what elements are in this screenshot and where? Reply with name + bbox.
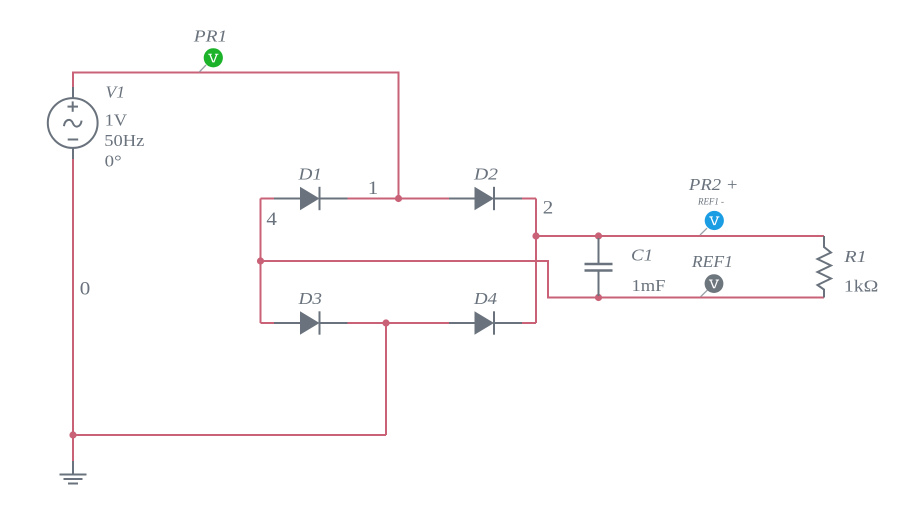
svg-text:PR1: PR1 — [193, 26, 228, 45]
capacitor C1 — [585, 238, 613, 296]
diode D1 — [274, 187, 348, 210]
junction node 1 — [395, 195, 402, 202]
junction C1 top — [595, 232, 602, 239]
svg-text:PR2 +: PR2 + — [688, 175, 739, 194]
probe PR2 — [700, 211, 724, 235]
svg-text:D3: D3 — [297, 289, 322, 308]
wire: V1 bottom down to ground rail — [72, 158, 74, 435]
svg-text:4: 4 — [266, 210, 277, 230]
wire: ground stub — [72, 435, 74, 462]
junction node 4 — [257, 257, 264, 264]
probe PR1 — [199, 48, 223, 72]
svg-text:1mF: 1mF — [632, 276, 666, 295]
svg-text:D1: D1 — [297, 164, 322, 183]
svg-text:0: 0 — [80, 279, 91, 299]
junction node 2 — [532, 232, 539, 239]
diode D2 — [449, 187, 522, 210]
svg-text:1V: 1V — [105, 111, 128, 130]
svg-text:D2: D2 — [473, 164, 498, 183]
wire: bridge left vertical (node 4) — [260, 199, 262, 324]
svg-text:R1: R1 — [843, 247, 867, 266]
ground — [60, 461, 87, 484]
wire: bridge right vertical (node 2) — [535, 199, 537, 324]
svg-text:50Hz: 50Hz — [104, 131, 144, 150]
wire: bottom row drop to ground rail — [385, 323, 387, 435]
svg-text:V1: V1 — [106, 82, 126, 101]
svg-text:REF1: REF1 — [691, 252, 733, 271]
wire: node 2 tap to R1 top rail — [536, 235, 824, 237]
wire: ground rail bottom — [73, 434, 386, 436]
junction bottom row — [382, 319, 389, 326]
svg-text:1: 1 — [368, 179, 379, 199]
wire: bridge top row (node 1 rail) — [261, 198, 537, 200]
wire: V1 top up and across to node 1 drop — [73, 73, 399, 199]
diode D4 — [449, 311, 522, 334]
svg-text:1kΩ: 1kΩ — [844, 277, 879, 296]
svg-text:D4: D4 — [473, 289, 497, 308]
svg-text:C1: C1 — [631, 246, 653, 265]
junction C1 bottom — [595, 294, 602, 301]
svg-text:2: 2 — [543, 199, 554, 219]
probe REF1 — [701, 274, 724, 297]
diode D3 — [274, 311, 348, 334]
wire: node 4 middle tap to bottom output rail — [261, 261, 825, 298]
junction ground — [69, 431, 76, 438]
resistor R1 — [818, 236, 832, 298]
svg-text:0°: 0° — [105, 151, 122, 170]
svg-text:REF1 -: REF1 - — [697, 197, 724, 207]
wire: bridge bottom row — [261, 322, 537, 324]
source V1 — [48, 87, 98, 159]
